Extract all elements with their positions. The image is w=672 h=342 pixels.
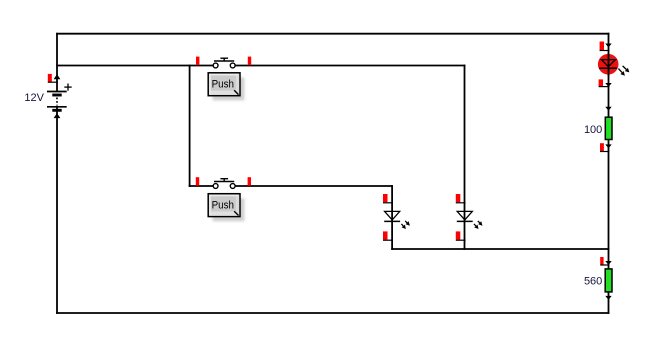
pin tick D1 bottom: [383, 239, 393, 241]
pin tick R2 top: [600, 264, 609, 266]
wire bottom middle (node X): [391, 248, 609, 250]
D3 light arrow 1: [618, 69, 625, 76]
current arrow D3 top (down): [605, 44, 611, 48]
pin tick battery +: [48, 81, 58, 83]
pin mark R2 top: [600, 257, 603, 265]
LED D3 (lit, top right): [598, 42, 630, 88]
wire SW2 left stub: [189, 185, 214, 187]
pin mark D3 bottom: [599, 79, 603, 86]
pin mark battery +: [48, 74, 52, 82]
svg-text:560: 560: [584, 276, 602, 288]
SW1 bridge bar: [214, 60, 234, 62]
D1 triangle: [385, 211, 400, 220]
svg-text:Push: Push: [212, 200, 234, 212]
SW2 button bevel right: [236, 195, 239, 216]
pin tick D3 bottom: [599, 86, 610, 88]
SW1 actuator cap: [220, 57, 228, 59]
pin mark SW1 left: [196, 57, 199, 66]
pin tick D1 top: [383, 202, 393, 204]
pin mark SW2 right: [248, 177, 251, 186]
pin tick D2 bottom: [456, 239, 466, 241]
SW2 button bevel bottom: [210, 212, 239, 216]
svg-text:12V: 12V: [24, 92, 44, 104]
SW2 button highlight left: [209, 195, 211, 216]
SW2 actuator cap: [220, 178, 228, 180]
svg-text:100: 100: [584, 124, 602, 136]
push switch SW1: [196, 57, 251, 101]
SW2 actuator stem: [223, 179, 225, 182]
wire battery to SW1: [56, 65, 213, 67]
wire bottom horizontal: [56, 312, 609, 314]
pin mark D2 bottom: [456, 231, 461, 239]
resistor R1 100: [584, 107, 612, 152]
D2 cathode bar: [457, 220, 473, 222]
LED D2: [456, 194, 483, 240]
SW2 terminal circle left: [213, 184, 218, 189]
wire vertical D1 branch: [391, 185, 393, 250]
SW1 button corner diagonal: [234, 90, 238, 94]
wire junction drop to SW2: [189, 65, 191, 187]
D3 triangle: [601, 60, 615, 67]
SW1 actuator stem: [223, 58, 225, 61]
wire through D3: [608, 53, 610, 76]
current arrow R2 top (down): [605, 261, 611, 265]
current arrow battery top (up): [54, 74, 61, 79]
push switch SW2: [196, 177, 251, 221]
current arrow battery bottom (up): [54, 113, 61, 118]
pin tick D2 top: [456, 202, 466, 204]
LED D1: [383, 194, 410, 240]
wire SW2 to D1 corner: [235, 185, 393, 187]
SW2 button corner diagonal: [234, 211, 238, 215]
SW1 button shadow: [213, 77, 245, 100]
current arrow R2 bottom (down): [605, 296, 611, 300]
svg-text:Push: Push: [212, 79, 234, 91]
pin mark D1 top: [383, 194, 388, 202]
pin mark D2 top: [456, 194, 461, 202]
pin mark SW1 right: [248, 57, 251, 66]
battery plus label: [64, 84, 71, 91]
SW1 button highlight top: [210, 74, 239, 76]
SW2 button highlight top: [210, 195, 239, 197]
D3 lit body circle: [598, 54, 619, 75]
wire left vertical upper (battery top riser): [56, 33, 58, 92]
SW2 button shadow: [213, 198, 245, 221]
battery plate short thick 2: [52, 109, 61, 112]
D2 light arrow 2: [478, 221, 483, 226]
current arrow D3 bottom (down): [605, 83, 611, 87]
battery plate long 2: [47, 106, 67, 108]
wire right vertical: [608, 33, 610, 314]
R1 body: [605, 117, 612, 139]
pin tick R1 bottom: [600, 151, 609, 153]
resistor R2 560: [584, 257, 612, 300]
D2 light arrow 1: [474, 224, 479, 229]
SW2 bridge bar: [214, 181, 234, 183]
battery plate long 1: [47, 91, 67, 93]
battery B1 12V: [24, 74, 71, 118]
D3 light arrow 2: [623, 66, 630, 73]
battery dashed middle: [56, 98, 58, 106]
SW1 button body: [208, 73, 240, 96]
SW1 terminal circle left: [213, 63, 218, 68]
wire SW1 to top of D2 branch: [235, 65, 465, 67]
current arrow R1 top (down): [605, 107, 611, 111]
SW2 button body: [208, 194, 240, 217]
pin mark R1 bottom: [600, 143, 604, 151]
wire top horizontal: [56, 33, 609, 35]
wire left vertical lower (battery to bottom): [56, 107, 58, 314]
D2 triangle: [457, 211, 472, 220]
SW1 button bevel right: [236, 74, 239, 95]
R2 body: [605, 269, 612, 292]
current arrow R1 bottom (down): [605, 144, 611, 148]
pin mark D1 bottom: [383, 231, 388, 239]
pin mark D3 top: [600, 42, 604, 51]
D1 light arrow 1: [401, 224, 406, 229]
pin mark SW2 left: [196, 177, 199, 186]
D3 cathode bar: [599, 67, 617, 69]
SW1 button highlight left: [209, 74, 211, 95]
wire vertical D2 branch: [464, 65, 466, 250]
battery plate short thick 1: [52, 94, 61, 97]
D1 light arrow 2: [405, 221, 410, 226]
SW1 button bevel bottom: [210, 91, 239, 95]
pin tick D3 top: [600, 50, 610, 52]
SW2 terminal circle right: [230, 184, 235, 189]
D1 cathode bar: [384, 220, 400, 222]
SW1 terminal circle right: [230, 63, 235, 68]
